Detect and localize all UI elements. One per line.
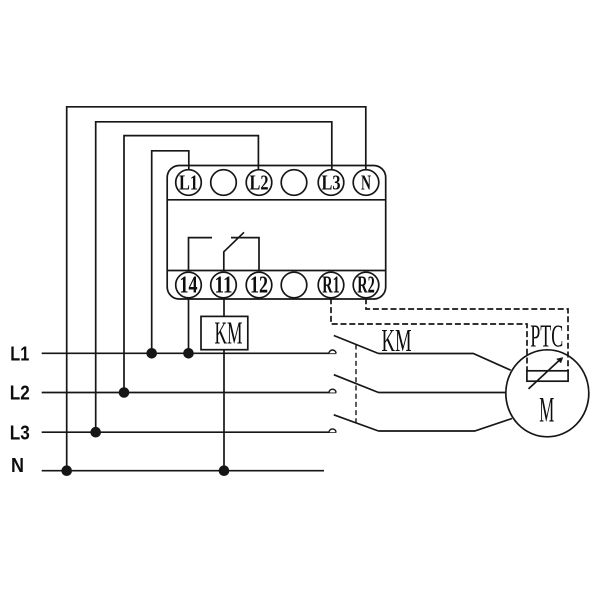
PTC arrowhead [556, 357, 563, 363]
wire from L1 terminal over top to L1 bus [152, 151, 189, 353]
contactor KM contact 2 blade [334, 375, 379, 393]
contactor KM contact 1 blade [334, 336, 379, 354]
svg-text:12: 12 [250, 273, 268, 299]
svg-text:L2: L2 [10, 383, 30, 405]
svg-text:L3: L3 [322, 170, 341, 194]
internal contact 12 side [231, 238, 259, 271]
junction dot N/wire1 [61, 465, 72, 476]
N bus line [42, 470, 324, 472]
svg-text:L1: L1 [10, 344, 29, 366]
relay inner line top [167, 199, 386, 201]
relay U1 outline [167, 166, 386, 300]
PTC arrow [529, 358, 562, 389]
svg-text:L1: L1 [179, 170, 198, 194]
terminal blank bottom [281, 272, 307, 298]
L1 bus line [42, 352, 337, 354]
svg-text:L3: L3 [10, 422, 30, 444]
terminal 11 [211, 272, 237, 298]
junction dot L2/wire3 [119, 387, 130, 398]
svg-text:14: 14 [180, 273, 198, 299]
contactor KM contact 3 fixed circle [329, 429, 336, 432]
junction dot L1/terminal14 [183, 348, 194, 359]
svg-text:M: M [539, 390, 554, 430]
wire terminal 14 to L1 bus [188, 298, 190, 353]
svg-text:L2: L2 [250, 170, 269, 194]
terminal L2 [246, 170, 272, 196]
wire from N terminal over top to N bus [67, 107, 366, 471]
contactor KM contact 1 fixed circle [329, 350, 336, 353]
motor M circle [506, 350, 589, 437]
svg-text:R2: R2 [357, 273, 375, 299]
dashed wire R1 to PTC [331, 298, 527, 371]
terminal R2 [353, 272, 379, 298]
internal contact 14 side [189, 238, 213, 271]
terminal blank top 1 [211, 170, 237, 196]
svg-text:N: N [11, 455, 24, 477]
L2 bus line [42, 392, 337, 394]
wire contact3 to motor [379, 419, 513, 432]
svg-text:N: N [361, 170, 371, 194]
junction dot N/KM coil [219, 465, 230, 476]
PTC sensor box [527, 371, 568, 381]
terminal N [353, 170, 379, 196]
svg-text:KM: KM [382, 322, 412, 358]
wire contact2 to motor [379, 392, 506, 394]
svg-text:PTC: PTC [530, 318, 563, 354]
relay inner line bottom [167, 270, 386, 272]
L3 bus line [42, 431, 337, 433]
wire terminal 11 to KM coil [223, 298, 225, 316]
terminal R1 [318, 272, 344, 298]
coil KM box [201, 316, 248, 349]
junction dot L1/wire4 [146, 348, 157, 359]
svg-text:11: 11 [215, 273, 233, 299]
wire from L3 terminal over top to L3 bus [96, 122, 332, 432]
junction dot L3/wire2 [90, 427, 101, 438]
internal contact blade from 11 [224, 232, 244, 270]
terminal L1 [176, 170, 202, 196]
terminal L3 [318, 170, 344, 196]
terminal blank top 2 [281, 170, 307, 196]
wire contact1 to motor [379, 354, 511, 371]
contactor mechanical link dashed [355, 345, 357, 424]
contactor KM contact 2 fixed circle [329, 389, 336, 392]
terminal 14 [176, 272, 202, 298]
svg-text:KM: KM [215, 315, 243, 351]
dashed wire R2 to PTC [366, 298, 568, 371]
wire from L2 terminal over top to L2 bus [124, 136, 258, 393]
svg-text:R1: R1 [322, 273, 340, 299]
terminal 12 [246, 272, 272, 298]
contactor KM contact 3 blade [334, 415, 379, 431]
wire KM coil to N bus [223, 350, 225, 471]
